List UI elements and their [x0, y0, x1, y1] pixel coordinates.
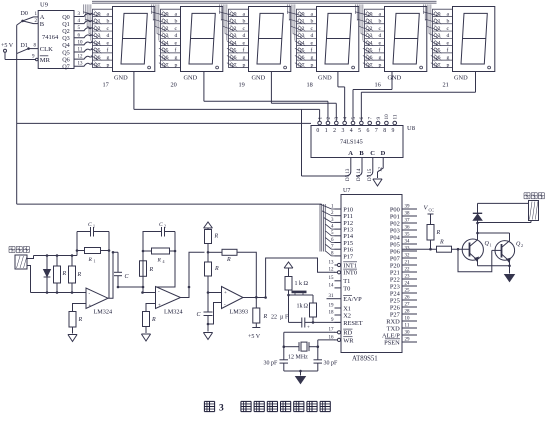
svg-text:1: 1 — [94, 259, 96, 264]
svg-text:P27: P27 — [390, 311, 401, 318]
svg-text:P23: P23 — [390, 283, 400, 290]
svg-text:GND: GND — [252, 74, 266, 81]
svg-text:C: C — [159, 222, 163, 228]
svg-text:Q7: Q7 — [434, 62, 441, 68]
svg-text:3: 3 — [341, 128, 344, 134]
svg-text:LM324: LM324 — [94, 309, 113, 316]
svg-text:Q5: Q5 — [162, 48, 169, 54]
svg-text:p: p — [447, 62, 450, 68]
svg-text:Q7: Q7 — [162, 62, 169, 68]
svg-text:+: + — [158, 304, 161, 309]
svg-text:3: 3 — [334, 117, 340, 120]
svg-text:f: f — [311, 47, 313, 54]
svg-text:d: d — [175, 33, 178, 39]
svg-text:f: f — [107, 47, 109, 54]
svg-text:32: 32 — [405, 253, 411, 258]
svg-text:C: C — [370, 150, 375, 157]
svg-text:LM324: LM324 — [164, 309, 183, 316]
svg-text:+: + — [224, 291, 227, 296]
svg-text:74164: 74164 — [42, 34, 59, 41]
svg-text:R: R — [151, 317, 156, 323]
svg-text:74LS145: 74LS145 — [340, 139, 363, 146]
svg-text:21: 21 — [405, 260, 411, 265]
svg-text:P00: P00 — [390, 206, 400, 213]
svg-text:b: b — [379, 19, 382, 25]
svg-text:f: f — [175, 47, 177, 54]
svg-text:p: p — [175, 62, 178, 68]
svg-text:P22: P22 — [390, 276, 400, 283]
svg-text:X1: X1 — [343, 305, 351, 312]
svg-text:Q5: Q5 — [230, 48, 237, 54]
svg-text:5: 5 — [358, 128, 361, 134]
svg-text:Q0: Q0 — [434, 11, 441, 17]
svg-text:Q0: Q0 — [366, 11, 373, 17]
svg-text:4: 4 — [342, 117, 348, 120]
svg-text:35: 35 — [405, 232, 411, 237]
svg-text:12: 12 — [379, 167, 384, 173]
svg-text:AT89S51: AT89S51 — [352, 356, 378, 363]
svg-text:Q7: Q7 — [230, 62, 237, 68]
svg-text:P20: P20 — [390, 262, 400, 269]
svg-text:INT0: INT0 — [343, 270, 357, 277]
svg-text:5: 5 — [351, 117, 357, 120]
svg-text:Q4: Q4 — [434, 40, 441, 46]
svg-text:D0: D0 — [21, 11, 28, 17]
svg-text:R: R — [88, 257, 93, 263]
svg-text:P03: P03 — [390, 227, 400, 234]
svg-text:39: 39 — [405, 204, 411, 209]
svg-text:28: 28 — [405, 309, 411, 314]
svg-text:CLK: CLK — [40, 46, 53, 53]
svg-text:Q1: Q1 — [434, 19, 441, 25]
svg-text:g: g — [175, 55, 178, 61]
svg-text:1: 1 — [325, 128, 328, 134]
svg-text:38: 38 — [405, 211, 411, 216]
svg-text:R: R — [157, 258, 162, 264]
svg-text:36: 36 — [405, 225, 411, 230]
svg-text:16: 16 — [375, 82, 381, 89]
svg-text:Q4: Q4 — [94, 40, 101, 46]
svg-text:d: d — [447, 33, 450, 39]
svg-text:Q5: Q5 — [298, 48, 305, 54]
svg-text:A: A — [348, 150, 353, 157]
svg-text:21: 21 — [443, 82, 449, 89]
svg-text:Q1: Q1 — [230, 19, 237, 25]
svg-text:26: 26 — [405, 295, 411, 300]
svg-text:MR: MR — [40, 57, 51, 64]
svg-text:Q4: Q4 — [162, 40, 169, 46]
svg-text:Q4: Q4 — [62, 42, 70, 49]
svg-text:Q4: Q4 — [298, 40, 305, 46]
svg-text:p: p — [379, 62, 382, 68]
svg-text:+: + — [89, 304, 92, 309]
svg-text:22: 22 — [271, 315, 277, 321]
svg-text:d: d — [379, 33, 382, 39]
svg-text:Q5: Q5 — [62, 49, 70, 56]
svg-text:R: R — [436, 230, 441, 236]
svg-text:Q4: Q4 — [366, 40, 373, 46]
svg-text:Q0: Q0 — [94, 11, 101, 17]
svg-text:g: g — [311, 55, 314, 61]
svg-text:Q1: Q1 — [62, 21, 70, 28]
svg-text:g: g — [107, 55, 110, 61]
svg-text:R: R — [439, 240, 444, 246]
svg-text:p: p — [311, 62, 314, 68]
svg-text:18: 18 — [329, 310, 335, 315]
svg-text:14: 14 — [329, 283, 335, 288]
svg-text:20: 20 — [171, 82, 177, 89]
svg-text:b: b — [311, 19, 314, 25]
svg-text:Q4: Q4 — [230, 40, 237, 46]
svg-text:d: d — [107, 33, 110, 39]
svg-text:R: R — [62, 271, 67, 277]
svg-text:P24: P24 — [390, 290, 401, 297]
svg-text:RESET: RESET — [343, 320, 363, 327]
svg-text:R: R — [263, 314, 268, 320]
svg-text:19: 19 — [329, 303, 335, 308]
svg-text:Q5: Q5 — [94, 48, 101, 54]
svg-text:Q7: Q7 — [298, 62, 305, 68]
svg-text:TXD: TXD — [387, 325, 401, 332]
svg-text:R: R — [214, 266, 219, 272]
svg-text:1k: 1k — [297, 304, 303, 310]
svg-text:U7: U7 — [343, 188, 350, 194]
svg-text:Q1: Q1 — [298, 19, 305, 25]
svg-text:Q6: Q6 — [230, 55, 237, 61]
svg-text:p: p — [243, 62, 246, 68]
svg-text:1: 1 — [317, 117, 323, 120]
svg-text:15: 15 — [329, 276, 335, 281]
svg-text:g: g — [243, 55, 246, 61]
svg-text:17: 17 — [103, 82, 109, 89]
svg-text:2: 2 — [521, 243, 523, 248]
svg-text:Q6: Q6 — [366, 55, 373, 61]
svg-text:Q0: Q0 — [62, 14, 70, 21]
svg-text:b: b — [175, 19, 178, 25]
svg-text:Q6: Q6 — [94, 55, 101, 61]
svg-text:D1: D1 — [21, 43, 28, 49]
svg-text:d: d — [243, 33, 246, 39]
svg-text:f: f — [447, 47, 449, 54]
svg-text:2: 2 — [333, 128, 336, 134]
svg-text:R: R — [226, 257, 231, 263]
svg-text:X2: X2 — [343, 312, 351, 319]
svg-text:3: 3 — [219, 404, 224, 414]
svg-text:RXD: RXD — [386, 318, 400, 325]
svg-text:27: 27 — [405, 302, 411, 307]
svg-text:g: g — [379, 55, 382, 61]
svg-text:D7 15: D7 15 — [368, 168, 373, 181]
svg-text:LM393: LM393 — [230, 309, 249, 316]
svg-text:U9: U9 — [40, 2, 48, 9]
svg-text:Q0: Q0 — [230, 11, 237, 17]
svg-text:2: 2 — [164, 224, 166, 229]
svg-text:2: 2 — [326, 117, 332, 120]
svg-text:D5 13: D5 13 — [346, 168, 351, 181]
svg-text:ALE/P: ALE/P — [382, 332, 400, 339]
svg-text:P04: P04 — [390, 234, 401, 241]
svg-text:Ω: Ω — [304, 281, 309, 287]
svg-text:30 pF: 30 pF — [324, 361, 339, 367]
svg-text:19: 19 — [239, 82, 245, 89]
svg-text:T0: T0 — [343, 285, 350, 292]
svg-text:INT1: INT1 — [343, 262, 357, 269]
svg-text:6: 6 — [359, 117, 365, 120]
svg-text:+: + — [307, 326, 310, 331]
svg-text:9: 9 — [392, 128, 395, 134]
svg-text:1: 1 — [93, 224, 95, 229]
svg-text:13: 13 — [329, 260, 335, 265]
svg-text:D: D — [381, 150, 386, 157]
svg-text:34: 34 — [405, 239, 411, 244]
svg-text:U8: U8 — [407, 125, 415, 132]
svg-text:Q6: Q6 — [298, 55, 305, 61]
svg-text:P26: P26 — [390, 304, 400, 311]
svg-text:9: 9 — [376, 117, 382, 120]
svg-text:b: b — [243, 19, 246, 25]
svg-text:Q5: Q5 — [434, 48, 441, 54]
svg-text:p: p — [107, 62, 110, 68]
svg-text:+5 V: +5 V — [1, 43, 14, 49]
svg-text:1: 1 — [490, 243, 492, 248]
svg-text:11: 11 — [393, 114, 399, 119]
svg-text:µ F: µ F — [280, 315, 289, 321]
svg-text:Q0: Q0 — [162, 11, 169, 17]
svg-text:T1: T1 — [343, 278, 350, 285]
svg-text:Ω: Ω — [304, 304, 309, 310]
svg-text:GND: GND — [454, 74, 468, 81]
svg-text:18: 18 — [307, 82, 313, 89]
svg-text:Q6: Q6 — [62, 56, 70, 63]
svg-text:CC: CC — [429, 208, 435, 213]
svg-text:C: C — [88, 222, 92, 228]
svg-text:7: 7 — [368, 117, 374, 120]
svg-text:WR: WR — [343, 337, 354, 344]
svg-text:30: 30 — [405, 330, 411, 335]
svg-text:1 k: 1 k — [295, 281, 303, 287]
svg-text:P01: P01 — [390, 213, 400, 220]
svg-text:Q6: Q6 — [162, 55, 169, 61]
svg-text:P25: P25 — [390, 297, 400, 304]
svg-text:24: 24 — [405, 281, 411, 286]
svg-text:22: 22 — [405, 267, 411, 272]
svg-text:6: 6 — [367, 128, 370, 134]
svg-text:b: b — [447, 19, 450, 25]
svg-text:R: R — [77, 272, 82, 278]
svg-text:B: B — [40, 21, 45, 28]
svg-text:11: 11 — [405, 323, 410, 328]
svg-text:R: R — [214, 234, 219, 240]
svg-text:Q7: Q7 — [62, 64, 70, 71]
svg-text:29: 29 — [405, 337, 411, 342]
svg-text:12 MHz: 12 MHz — [288, 355, 308, 361]
svg-text:GND: GND — [184, 74, 198, 81]
svg-text:P07: P07 — [390, 255, 401, 262]
svg-text:Q3: Q3 — [62, 35, 70, 42]
svg-text:23: 23 — [405, 274, 411, 279]
svg-text:Q1: Q1 — [94, 19, 101, 25]
svg-text:7: 7 — [375, 128, 378, 134]
svg-text:g: g — [447, 55, 450, 61]
svg-text:37: 37 — [405, 218, 411, 223]
svg-text:GND: GND — [388, 74, 402, 81]
svg-text:D6 14: D6 14 — [357, 168, 362, 181]
svg-text:Q2: Q2 — [62, 28, 70, 35]
svg-text:4: 4 — [163, 259, 165, 264]
svg-text:Q6: Q6 — [434, 55, 441, 61]
svg-text:P06: P06 — [390, 248, 400, 255]
svg-text:f: f — [243, 47, 245, 54]
svg-text:P05: P05 — [390, 241, 400, 248]
svg-text:EA/VP: EA/VP — [343, 296, 362, 303]
svg-text:10: 10 — [405, 316, 411, 321]
svg-text:Q0: Q0 — [298, 11, 305, 17]
svg-text:B: B — [359, 150, 364, 157]
svg-text:Q1: Q1 — [366, 19, 373, 25]
svg-text:Q7: Q7 — [366, 62, 373, 68]
svg-text:PSEN: PSEN — [384, 339, 400, 346]
svg-text:GND: GND — [114, 74, 128, 81]
svg-text:4: 4 — [350, 128, 353, 134]
svg-text:0: 0 — [316, 128, 319, 134]
svg-text:30 pF: 30 pF — [264, 361, 279, 367]
svg-text:b: b — [107, 19, 110, 25]
svg-text:P17: P17 — [343, 253, 354, 260]
svg-text:Q7: Q7 — [94, 62, 101, 68]
svg-text:10: 10 — [384, 114, 390, 120]
svg-text:GND: GND — [318, 74, 332, 81]
svg-text:25: 25 — [405, 288, 411, 293]
svg-text:Q1: Q1 — [162, 19, 169, 25]
svg-text:+5 V: +5 V — [248, 334, 261, 340]
svg-text:f: f — [379, 47, 381, 54]
svg-text:R: R — [149, 267, 154, 273]
svg-text:P21: P21 — [390, 269, 400, 276]
svg-text:P02: P02 — [390, 220, 400, 227]
svg-text:R: R — [78, 317, 83, 323]
svg-text:d: d — [311, 33, 314, 39]
svg-text:Q5: Q5 — [366, 48, 373, 54]
svg-text:8: 8 — [383, 128, 386, 134]
svg-text:RD: RD — [343, 330, 352, 337]
